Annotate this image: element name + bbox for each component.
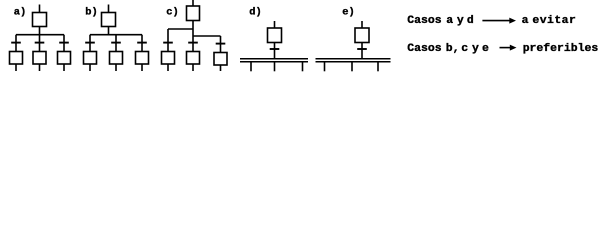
busbar e lower line: [316, 61, 391, 63]
wire outlet stub b1: [89, 64, 91, 71]
wire outlet stub a2: [39, 64, 41, 71]
arrow 1: [482, 18, 516, 24]
tap tick c3: [216, 43, 226, 45]
svg-text:d: d: [467, 14, 474, 27]
svg-text:preferibles: preferibles: [523, 42, 599, 55]
svg-text:evitar: evitar: [532, 14, 576, 27]
wire feeder c (crosses both bus levels to middle tap): [192, 21, 194, 52]
wire outlet stub c2: [192, 64, 194, 71]
svg-text:a: a: [446, 14, 453, 27]
svg-text:b,: b,: [446, 42, 460, 55]
wire tap a3: [63, 35, 65, 52]
wire outlet stub b3: [141, 64, 143, 71]
wire tap b1: [89, 35, 91, 52]
load square c3: [214, 53, 227, 66]
unit square d0: [268, 28, 282, 43]
load square b1: [84, 52, 97, 65]
bus c upper: [168, 28, 193, 30]
busbar d lower line: [240, 61, 308, 63]
unit square e0: [355, 28, 369, 43]
svg-text:a): a): [14, 7, 26, 19]
wire tap b3: [141, 35, 143, 52]
tap tick b2: [111, 42, 121, 44]
wire outlet stub a1: [15, 64, 17, 71]
load square b2: [110, 52, 123, 65]
wire outlet stub c3: [220, 65, 222, 71]
wire tap c3: [220, 36, 222, 53]
caption line 2: Casos b, c y e: [407, 42, 598, 55]
tap tick b3: [137, 42, 147, 44]
wire tap c1: [167, 29, 169, 52]
tap tick b1: [85, 42, 95, 44]
tap tick c2: [188, 42, 198, 44]
bus b: [90, 34, 142, 36]
svg-text:Casos: Casos: [407, 14, 441, 27]
wire incoming stub b: [108, 5, 110, 13]
svg-text:d): d): [249, 7, 261, 19]
wire tap a1: [15, 35, 17, 52]
tap tick a1: [11, 42, 21, 44]
load square a2: [33, 52, 46, 65]
load square c2: [187, 52, 200, 65]
wire feeder a (crosses bus to middle tap): [39, 27, 41, 52]
wire tap b2: [115, 35, 117, 52]
wire outlet stub e2: [351, 63, 353, 72]
wire outlet stub c1: [167, 64, 169, 71]
busbar d upper line: [240, 58, 308, 60]
bus a: [16, 34, 64, 36]
svg-text:c): c): [166, 7, 178, 19]
svg-text:y: y: [457, 14, 464, 27]
tap tick a2: [35, 42, 45, 44]
load square a1: [10, 52, 23, 65]
wire feeder e: [361, 43, 363, 59]
wire outlet stub e1: [324, 63, 326, 72]
svg-text:e): e): [342, 7, 354, 19]
arrow 2: [500, 45, 517, 51]
bus c lower: [193, 35, 221, 37]
svg-text:Casos: Casos: [407, 42, 441, 55]
caption line 1: Casos a y d: [407, 14, 576, 27]
wire outlet stub d2: [274, 63, 276, 72]
load square c1: [162, 52, 175, 65]
svg-text:a: a: [522, 14, 529, 27]
wire incoming stub c: [192, 0, 194, 6]
wire outlet stub d3: [302, 63, 304, 72]
tap tick c1: [163, 42, 173, 44]
busbar e upper line: [316, 58, 391, 60]
transformer T-a top: [10, 5, 71, 72]
svg-text:b): b): [85, 7, 97, 19]
load square b3: [136, 52, 149, 65]
wire incoming stub d: [274, 21, 276, 28]
load square a3: [58, 52, 71, 65]
unit square b0: [102, 13, 116, 27]
unit square a0: [33, 13, 47, 27]
wire feeder d: [274, 43, 276, 59]
unit square c0: [187, 6, 200, 21]
feeder tick d: [270, 48, 280, 50]
svg-text:c: c: [461, 42, 468, 55]
wire outlet stub e3: [377, 63, 379, 72]
tap tick a3: [59, 42, 69, 44]
wire incoming stub e: [361, 21, 363, 28]
svg-text:e: e: [482, 42, 489, 55]
wire incoming stub a: [39, 5, 41, 13]
wire outlet stub d1: [250, 63, 252, 72]
wire outlet stub a3: [63, 64, 65, 71]
wire feeder b (T into bus): [108, 27, 110, 35]
feeder tick e: [357, 48, 367, 50]
svg-text:y: y: [472, 42, 479, 55]
wire outlet stub b2: [115, 64, 117, 71]
